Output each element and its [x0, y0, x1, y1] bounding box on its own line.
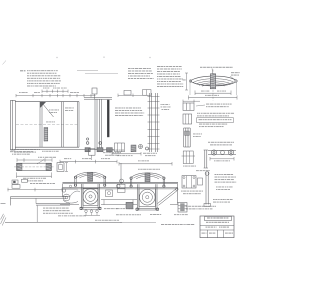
- leaf spring bundle (detail view): [190, 76, 237, 81]
- spring centreline: [212, 70, 214, 101]
- margin registration dash: [1, 202, 6, 204]
- long dimension under bracket: [8, 189, 63, 191]
- lower right labels: [143, 152, 146, 155]
- leader to spring top: [212, 69, 213, 75]
- plan: inner label 1: [49, 109, 51, 112]
- note text block (general notes, top-left): [27, 69, 29, 72]
- axle + axlebox 1: [83, 188, 98, 205]
- dimension over fittings: [118, 94, 148, 96]
- title row: railway company: [206, 222, 208, 223]
- plan: frame right side member: [76, 102, 78, 148]
- pin note line 3-4: [199, 123, 202, 126]
- plan: transverse rib 2: [61, 102, 63, 148]
- plate thickness label: [161, 103, 162, 106]
- plan: frame top edge: [15, 101, 79, 103]
- spec text block A (top centre): [128, 67, 130, 70]
- cross member top flange: [84, 97, 112, 99]
- plan: transverse rib 1: [39, 102, 41, 148]
- spring 1 buckle: [88, 172, 93, 181]
- title block bottom cells (drawing number): [200, 229, 234, 231]
- stack caption: [174, 213, 176, 216]
- elevation: centre hanger rod: [120, 163, 122, 184]
- rod detail caption: [14, 148, 16, 151]
- spec text block B (top centre-right): [157, 65, 160, 68]
- note above title block: [183, 205, 185, 208]
- NOTE label: [20, 70, 23, 71]
- link dimension: [210, 158, 234, 160]
- caption under elevation left: [43, 207, 45, 210]
- detail: guide plate lower: [183, 151, 193, 164]
- right column notes 2: [216, 186, 218, 189]
- elevation: brake hanger bracket: [120, 179, 124, 183]
- rod upper dimension: [17, 159, 52, 161]
- plan: centreline: [16, 123, 79, 125]
- stop bracket label: [30, 182, 32, 185]
- caption under elevation 2: [58, 214, 61, 217]
- right column notes: [215, 173, 217, 176]
- small fittings above centre: [124, 90, 131, 95]
- horn stay 1: [80, 207, 102, 209]
- plan: hatched liner bar: [44, 128, 48, 142]
- detail: spring hanger bolt: [205, 172, 207, 205]
- rod end view: [57, 163, 64, 172]
- detail: hanger link upper: [204, 150, 206, 168]
- safety link detail at rail: [85, 210, 88, 213]
- axle + axlebox 2: [139, 189, 156, 207]
- plan: corner gusset (dark): [40, 102, 46, 108]
- brass liner label + leader: [38, 156, 39, 159]
- left height dimension: [186, 73, 188, 90]
- link caption (top right): [212, 149, 213, 152]
- plan: frame bottom edges: [15, 146, 79, 148]
- boxed hardening note: [197, 118, 234, 123]
- plan: diagonal stay: [42, 103, 54, 117]
- cross member webs: [94, 99, 96, 149]
- leader lines from note: [77, 69, 98, 71]
- stop bracket detail: [12, 180, 18, 184]
- support leg to rail: [36, 205, 38, 222]
- plan: centre dim text: [46, 121, 49, 124]
- lower span dimension: [189, 97, 238, 99]
- elevation: leaf spring 2: [131, 173, 164, 177]
- main dimension chain over plan: [16, 95, 96, 97]
- title row: scale / date: [200, 225, 234, 227]
- spring 2 front hanger: [129, 177, 131, 187]
- detail: spring link bracket: [183, 103, 194, 110]
- equaliser rod (hatched ends): [17, 163, 52, 170]
- label above bracket cluster: [196, 169, 199, 172]
- title block header: BOGIE & AXLE DETAILS: [205, 216, 232, 220]
- upper dimension chain over plan: [42, 90, 68, 92]
- hatched pad lower: [131, 145, 136, 152]
- small fitting above cross member: [92, 88, 97, 94]
- detail: axlebox keep bracket: [182, 176, 196, 188]
- bracket caption: [181, 190, 183, 193]
- rod caption right: [42, 150, 44, 153]
- spring buckle (hatched): [210, 74, 215, 89]
- elevation: drawbar lower lines: [36, 203, 70, 205]
- plan: inner label 2: [65, 107, 68, 110]
- elevation: centre stop block: [126, 202, 133, 209]
- elevation: drawbar top lines: [11, 196, 67, 198]
- caption mid-bottom: [116, 207, 117, 210]
- title block outer frame: [200, 216, 234, 238]
- elevation: frame top band: [63, 181, 179, 183]
- elevation: rear end plate: [176, 184, 178, 204]
- half elevation caption: [95, 219, 97, 222]
- horn guides 2: [137, 184, 139, 210]
- upper span dimension: [195, 92, 231, 94]
- cross member foot pads: [85, 148, 90, 152]
- hanger caption: [213, 198, 215, 201]
- plan view caption: [10, 150, 13, 153]
- bolt holes at cross member foot: [86, 142, 89, 145]
- pivot fitting + note above elevation: [89, 149, 96, 155]
- stacked washer detail: [178, 203, 187, 213]
- short note right of axlebox: [104, 207, 106, 210]
- baseline continuation: [120, 221, 156, 223]
- spring 2 buckle: [145, 173, 150, 182]
- elevation: front step: [62, 184, 64, 197]
- spring 1 front hanger: [74, 177, 76, 187]
- elevation: frame lower band: [63, 186, 179, 188]
- elevation: wheelbase dimension left: [60, 161, 117, 163]
- rail datum line: [5, 221, 122, 223]
- spring 2 rear hanger: [162, 177, 164, 187]
- pin holes lower cluster: [139, 145, 143, 149]
- detail: pin block: [183, 114, 192, 124]
- elevation: diagonal drag link: [158, 189, 177, 204]
- reference note left of title block: [161, 223, 164, 226]
- leaf spring camber note: [200, 67, 202, 68]
- pin note line 1-2: [197, 112, 198, 115]
- lower dimension line: [112, 153, 141, 155]
- small pins near step: [62, 189, 65, 192]
- plan: left end channel: [10, 100, 12, 150]
- horn guides 1: [81, 184, 83, 209]
- elevation: wheelbase dimension right: [119, 163, 172, 165]
- extension lines: [189, 82, 191, 95]
- detail: laminated washer stack: [183, 128, 185, 147]
- rod length dimension + caption: [17, 175, 52, 177]
- right spring label: [231, 71, 234, 74]
- plan: bogie centre verticals: [149, 93, 151, 152]
- corner scribble mark: [1, 214, 7, 226]
- bracket label text: [206, 103, 209, 106]
- elevation: bottom tie bar: [101, 199, 137, 201]
- dark section bar: [107, 100, 109, 137]
- equaliser link caption: [208, 141, 210, 144]
- elevation: frame bracket with boss: [63, 189, 81, 197]
- detail: equaliser link with pins: [208, 149, 236, 151]
- horn stay 2: [136, 207, 160, 209]
- faint top specks: [57, 57, 58, 58]
- elevation: leaf spring 1: [75, 172, 105, 176]
- axlebox reference note: [115, 107, 118, 110]
- plan: centre member ties: [148, 96, 160, 98]
- elevation: spring shoe centre: [106, 190, 113, 197]
- stack label: [193, 133, 196, 136]
- bracket detail lower: [115, 143, 125, 152]
- spring 1 rear hanger: [103, 177, 105, 187]
- spring plates note: [138, 168, 140, 171]
